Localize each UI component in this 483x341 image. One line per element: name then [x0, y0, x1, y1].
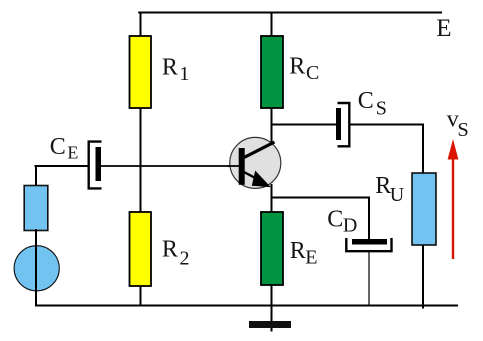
- svg-text:S: S: [376, 98, 387, 120]
- wire CE right to base: [101, 165, 241, 167]
- capacitor CE: [50, 134, 102, 188]
- base lead inside circle: [228, 165, 240, 167]
- resistor R1: [130, 36, 190, 108]
- svg-text:C: C: [358, 88, 374, 114]
- svg-text:E: E: [305, 247, 317, 269]
- emitter arrowhead: [252, 171, 271, 188]
- wire RU bottom lead: [422, 244, 424, 309]
- svg-text:C: C: [327, 207, 343, 233]
- wire collector to CS left: [272, 124, 337, 126]
- base bar: [239, 148, 245, 185]
- svg-text:C: C: [306, 62, 319, 84]
- capacitor CD: [327, 207, 391, 252]
- resistor RU (load): [375, 173, 436, 245]
- wire bottom rail: [35, 305, 458, 307]
- svg-text:1: 1: [179, 63, 189, 85]
- svg-text:S: S: [457, 119, 468, 141]
- svg-text:E: E: [67, 143, 78, 163]
- wire source internal drop: [35, 165, 37, 187]
- wire collector vertical: [271, 12, 273, 147]
- source internal resistance (blue rectangle): [24, 186, 48, 231]
- wire source to CE left: [35, 165, 90, 167]
- svg-text:R: R: [290, 238, 306, 264]
- svg-text:2: 2: [180, 247, 190, 269]
- capacitor CS: [336, 88, 387, 146]
- wire emitter vertical to RE: [271, 184, 273, 213]
- wire CS right to RU corner: [350, 125, 424, 175]
- svg-text:D: D: [343, 215, 357, 237]
- source generator (blue circle): [14, 246, 59, 291]
- wire through source circle: [35, 229, 37, 305]
- wire top rail: [138, 12, 442, 14]
- svg-text:R: R: [162, 236, 178, 262]
- wire emitter branch to CD: [272, 198, 370, 241]
- svg-text:C: C: [50, 134, 66, 160]
- emitter stroke: [243, 172, 259, 181]
- resistor RC: [261, 36, 319, 108]
- svg-text:E: E: [436, 15, 451, 42]
- wire CD bottom thin lead: [368, 252, 370, 305]
- collector stroke: [244, 142, 275, 158]
- wire source circle to bottom rail: [35, 228, 37, 307]
- svg-text:U: U: [390, 184, 405, 206]
- svg-text:R: R: [162, 54, 178, 80]
- resistor RE: [261, 212, 318, 285]
- svg-text:R: R: [289, 53, 305, 79]
- resistor R2: [130, 212, 190, 286]
- transistor Q1: [228, 137, 281, 188]
- output arrow vS: [447, 107, 469, 259]
- wire RE bottom through rail to ground: [271, 284, 273, 332]
- ground: [249, 321, 291, 328]
- wire left vertical (R1/R2 divider): [140, 12, 142, 307]
